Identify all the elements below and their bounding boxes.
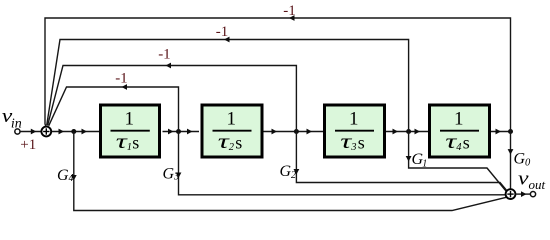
arrowhead into block 4 [415,129,421,135]
summing junction S1 [41,127,51,137]
wire feedback loop 1 (node E up, across, down to summing junction) [45,18,511,132]
svg-text:1: 1 [422,159,427,170]
label G1 [412,151,428,170]
svg-text:in: in [11,117,22,132]
svg-text:-1: -1 [216,24,229,40]
arrowhead loop3 [166,63,172,69]
wire tap G0 (node E down into output junction) [510,132,512,190]
wire tap G2 (node C down, across, slant to output junction) [296,132,507,191]
wire feedback loop 4 (node B up, across, slant to summing junction) [49,87,179,132]
arrowhead into block 2 [187,129,193,135]
svg-text:G: G [514,151,526,168]
arrowhead loop1 [289,15,295,21]
svg-text:G: G [280,163,292,180]
svg-text:s: s [463,133,470,153]
svg-text:s: s [358,133,365,153]
integrator block U3 1/tau3s [325,105,385,157]
arrowhead tap G4 [71,175,77,181]
wire tap G3 (node B down, across to output junction) [179,132,506,195]
wire feedback loop 2 (node D up, across, slant to summing junction) [47,40,409,132]
svg-text:0: 0 [525,158,531,169]
svg-text:1: 1 [125,109,135,130]
arrowhead loop4 [122,84,128,90]
arrowhead into summing junction [31,129,37,135]
wire summing junction to block 1 [52,131,99,133]
svg-text:+1: +1 [20,137,36,153]
arrowhead after block4 [496,129,502,135]
svg-text:4: 4 [456,142,462,153]
label G4 [57,167,74,184]
arrowhead into block 1 [82,129,88,135]
wire feedback loop 3 (node C up, across, slant to summing junction) [48,66,297,132]
svg-text:-1: -1 [115,70,128,86]
wire input terminal to summing junction [20,131,41,133]
arrowhead after block2 [272,129,278,135]
wire block3 to block4 [386,131,428,133]
arrowhead after block3 [393,129,399,135]
node B (tap G3 / loop4) [176,129,181,134]
svg-text:1: 1 [454,109,464,130]
svg-text:G: G [57,167,69,184]
arrowhead tap G2 [294,169,300,175]
label G2 [280,163,297,181]
label G0 [514,151,532,169]
svg-text:1: 1 [227,109,237,130]
wire block2 to block3 [264,131,324,133]
wire tap G4 (node A down, across, slant to output junction) [74,132,507,211]
svg-text:4: 4 [69,173,74,184]
arrowhead tap G3 [176,173,182,179]
svg-text:-1: -1 [158,46,171,62]
arrowhead into block 3 [307,129,313,135]
node C (tap G2 / loop3) [294,129,299,134]
svg-text:G: G [163,166,175,183]
label v_out [518,169,546,193]
svg-text:s: s [235,133,242,153]
svg-text:2: 2 [291,170,296,181]
svg-text:3: 3 [173,172,179,183]
svg-text:out: out [529,177,546,192]
arrowhead after summing junction [59,129,65,135]
wire block1 to block2 [163,131,200,133]
label G3 [163,166,180,183]
wire block4 to node E [491,131,511,133]
svg-text:-1: -1 [283,3,296,19]
node D (tap G1 / loop2) [406,129,411,134]
node A (tap G4 / after junction) [71,129,76,134]
svg-text:3: 3 [350,142,356,153]
wire output junction to output terminal [516,193,531,195]
input terminal open circle [15,129,20,134]
output terminal open circle [530,192,535,197]
arrowhead loop2 [224,37,230,43]
svg-text:2: 2 [229,142,235,153]
arrowhead tap G0 [508,149,514,155]
svg-text:s: s [132,133,139,153]
node E (tap G0 / loop1) [508,129,513,134]
arrowhead to output terminal [521,191,527,197]
integrator block U2 1/tau2s [202,105,262,157]
summing junction S2 (output) [506,189,516,199]
arrowhead tap G1 [406,156,412,162]
arrowhead after block1 [168,129,174,135]
integrator block U1 1/tau1s [101,105,160,157]
integrator block U4 1/tau4s [430,105,490,157]
wire tap G1 (node D down, across, slant to output junction) [409,132,506,192]
svg-text:1: 1 [349,109,359,130]
label v_in [2,106,22,132]
